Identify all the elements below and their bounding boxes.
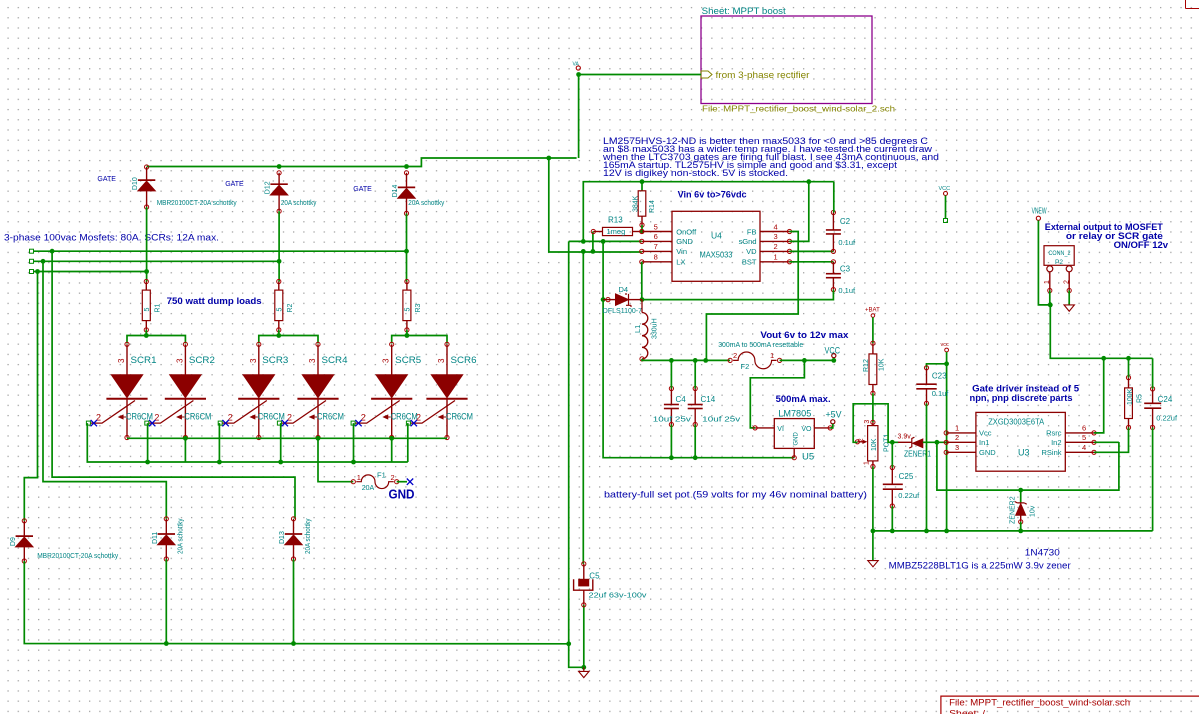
wire [1068,291,1070,305]
wire [872,393,874,422]
svg-text:3: 3 [955,443,959,452]
junction [890,440,895,445]
wire [891,506,893,531]
wire [670,360,672,388]
svg-text:SCR5: SCR5 [395,355,421,366]
svg-text:GND: GND [389,488,415,502]
svg-text:GND: GND [979,448,996,457]
svg-text:from 3-phase rectifier: from 3-phase rectifier [716,70,810,80]
power VCC stub [939,186,951,196]
label Vout note [760,330,849,341]
capacitor C4 [653,0,691,427]
wire [293,559,295,644]
wire F2 to VCC [780,359,834,361]
svg-text:LM7805: LM7805 [778,409,811,420]
wire end square [30,259,34,263]
IC U4 MAX5033 body [672,211,760,281]
global label VA [573,62,581,71]
junction [944,529,949,534]
diode D14 value [408,200,444,207]
junction [1018,529,1023,534]
svg-text:D13: D13 [279,531,286,544]
wire [583,605,585,668]
wire phase line 3 [34,271,147,273]
junction [50,249,55,254]
label F2 note [718,340,803,349]
junction [351,460,356,465]
junction [831,358,836,363]
capacitor C24 [1144,358,1178,429]
label 500mA max [776,394,831,405]
svg-text:5: 5 [277,308,284,312]
label 1N4730 [1025,548,1060,559]
wire [397,481,407,483]
svg-text:0.1uf: 0.1uf [932,389,950,398]
wire VCC to U5 [750,360,804,428]
diode D4 [603,285,642,315]
wire BST to C3 [790,261,834,263]
svg-text:ZXGD3003E6TA: ZXGD3003E6TA [988,418,1045,427]
capacitor C23 [916,366,949,406]
label GND [389,488,415,502]
label battery note [604,490,867,500]
svg-text:C3: C3 [840,265,851,274]
svg-text:4: 4 [1082,443,1086,452]
trimpot POT1 [855,420,890,469]
svg-text:10uf 25v: 10uf 25v [702,415,740,424]
IC U3 ZXGD3003E6TA body [976,412,1065,471]
svg-text:F2: F2 [741,362,750,371]
fuse F1 [351,471,399,493]
junction [404,249,409,254]
thyristor SCR4 [277,342,347,439]
svg-text:SCR2: SCR2 [189,355,215,366]
wire C24 down [1152,428,1154,531]
svg-text:SCR3: SCR3 [262,355,288,366]
svg-text:VD: VD [746,247,757,256]
svg-text:Sheet: /: Sheet: / [949,709,986,714]
junction [277,164,282,169]
label GATE 1 [97,176,116,183]
wire [926,403,928,531]
svg-text:vcc: vcc [941,342,950,348]
junction [591,249,596,254]
junction [581,665,586,670]
svg-text:SCR4: SCR4 [322,355,348,366]
wire top GND rail [583,182,834,242]
svg-text:3: 3 [175,358,184,363]
svg-text:C25: C25 [899,472,914,481]
svg-text:F1: F1 [377,471,386,480]
svg-text:CR6CM: CR6CM [317,412,344,422]
svg-text:In1: In1 [979,438,989,447]
svg-text:10v: 10v [1030,505,1037,517]
svg-text:C24: C24 [1158,395,1173,404]
svg-text:CR6CM: CR6CM [184,412,211,422]
svg-text:100K: 100K [1127,388,1134,405]
svg-text:2: 2 [391,473,395,482]
svg-text:2: 2 [955,433,959,442]
junction [802,358,807,363]
svg-text:+BAT: +BAT [865,308,880,314]
svg-text:Vin: Vin [676,247,687,256]
capacitor C25 [883,442,920,508]
label 750 watt dump loads [167,296,262,306]
svg-text:7: 7 [654,242,658,251]
wire FB net [706,232,798,361]
svg-text:2: 2 [1064,280,1071,284]
svg-text:3.9v: 3.9v [898,434,912,441]
svg-text:1: 1 [770,351,774,360]
wire gate stub [353,423,355,462]
wire [278,330,280,336]
wire phase1 drop to D13 [52,251,295,519]
svg-text:OnOff: OnOff [676,227,697,236]
svg-text:20A schottky: 20A schottky [408,200,444,207]
junction [924,529,929,534]
svg-text:D14: D14 [392,184,399,197]
svg-text:GND: GND [794,432,800,446]
wire [391,438,393,462]
svg-text:300mA to 500mA resettable: 300mA to 500mA resettable [718,340,803,349]
svg-text:1: 1 [864,461,871,465]
svg-text:C4: C4 [676,395,687,404]
wire gate bus [87,423,408,462]
sheet name [702,6,787,16]
svg-text:C4: C4 [678,0,689,2]
svg-text:0.22uf: 0.22uf [898,491,920,500]
svg-text:1: 1 [357,473,361,482]
wire top bus upper [147,158,577,167]
wire [259,336,318,344]
diode D11 value [178,518,185,554]
svg-text:VO: VO [801,426,812,433]
thyristor SCR2 [145,342,215,439]
wire C3 to LX node [642,290,833,300]
svg-text:R5: R5 [1137,394,1144,403]
power VCC [825,345,841,357]
junction [935,440,940,445]
sheet filename [702,104,895,114]
svg-text:5: 5 [1082,433,1086,442]
svg-text:20A: 20A [362,485,375,492]
wire R13 stub [592,232,594,252]
svg-text:1: 1 [774,253,778,262]
svg-text:R12: R12 [863,359,870,372]
svg-text:VNEW: VNEW [1032,207,1047,216]
svg-text:CONN_2: CONN_2 [1049,250,1071,257]
wire gate stub [147,423,149,462]
junction [183,436,188,441]
svg-text:2: 2 [774,242,778,251]
junction [1126,356,1131,361]
capacitor C3 [826,260,856,295]
thyristor SCR1 [86,342,156,439]
svg-text:6: 6 [654,232,658,241]
wire feed vertical [578,75,580,159]
wire sheet pin to junction [579,74,701,76]
svg-text:3: 3 [308,358,317,363]
svg-text:8: 8 [654,253,658,262]
svg-text:20A schottky: 20A schottky [178,518,185,554]
wire R5 to RSink [1094,428,1129,453]
svg-text:5: 5 [405,308,412,312]
svg-text:5: 5 [654,222,658,231]
svg-text:20A schottky: 20A schottky [305,518,312,554]
svg-text:3: 3 [382,358,391,363]
label MMBZ note [889,561,1071,571]
svg-text:Gate driver instead of 5: Gate driver instead of 5 [972,384,1079,394]
junction [669,358,674,363]
wire Rsrc up [1094,358,1104,433]
svg-text:1meg: 1meg [607,227,626,236]
junction [640,229,645,234]
wire phase line 1 [34,250,407,252]
svg-text:In2: In2 [1051,438,1061,447]
wire [923,441,946,443]
wire [694,360,696,388]
wire pot wiper loop [853,404,898,443]
svg-text:22uf 63v-100v: 22uf 63v-100v [589,591,647,600]
U3 left pins [944,424,996,457]
wire gate stub [218,423,220,462]
svg-text:R13: R13 [608,216,623,225]
wire C4/C14 gnd bus [603,300,794,458]
wire [24,561,568,644]
svg-text:npn, pnp discrete parts: npn, pnp discrete parts [970,393,1073,403]
wire bus drop to Vin net [549,158,642,252]
svg-text:10K: 10K [871,438,878,451]
diode D13 value [305,518,312,554]
svg-text:CR6CM: CR6CM [391,412,418,422]
svg-text:VCC: VCC [939,186,951,192]
wire end square [944,219,948,223]
wire [872,317,874,343]
junction [405,333,410,338]
wire rail to C2 [833,182,835,213]
svg-text:File: MPPT_rectifier_boost_win: File: MPPT_rectifier_boost_wind-solar_2.… [702,104,895,114]
svg-text:0.1uf: 0.1uf [838,286,856,295]
svg-text:D9: D9 [10,537,17,546]
wire VNEW down [1038,220,1050,305]
svg-text:0.1uf: 0.1uf [838,238,856,247]
thyristor SCR6 [406,342,476,439]
wire LX down [641,262,643,300]
no-connect X [407,479,413,485]
svg-text:R1: R1 [154,303,161,312]
power VCC small [941,342,950,352]
junction [581,249,586,254]
svg-text:GATE: GATE [97,176,116,183]
svg-text:5: 5 [144,308,151,312]
svg-text:GND: GND [676,237,693,246]
junction [806,179,811,184]
svg-text:SCR6: SCR6 [451,355,477,366]
svg-text:MAX5033: MAX5033 [700,250,733,260]
fuse F2 [728,351,782,371]
capacitor C2 [826,210,856,253]
junction [291,641,296,646]
junction [669,455,674,460]
svg-text:U4: U4 [711,231,722,241]
wire D4 anode drop [602,241,604,299]
svg-text:GATE: GATE [225,181,244,188]
svg-text:U3: U3 [1018,448,1030,458]
svg-text:1N4730: 1N4730 [1025,548,1060,559]
svg-text:2: 2 [733,351,737,360]
svg-text:3: 3 [249,358,258,363]
svg-text:MBR20100CT-20A schottky: MBR20100CT-20A schottky [157,200,237,207]
connector P2 CONN_2 [1044,246,1074,293]
junction [601,239,606,244]
svg-text:SCR1: SCR1 [131,355,157,366]
svg-text:L1: L1 [633,325,642,333]
svg-text:1: 1 [1044,280,1051,284]
svg-text:VA: VA [573,62,580,68]
wire [406,330,408,336]
wire bottom bus [873,530,1153,532]
svg-text:ZENER2: ZENER2 [1010,496,1017,524]
junction [890,529,895,534]
svg-text:MBR20100CT-20A schottky: MBR20100CT-20A schottky [37,553,118,560]
svg-text:3: 3 [437,358,446,363]
junction [576,72,581,77]
inductor L1 [633,300,658,361]
svg-text:3: 3 [864,420,871,424]
junction [871,529,876,534]
svg-text:battery-full set pot (59 volts: battery-full set pot (59 volts for my 46… [604,490,867,500]
wire C23 link [927,364,947,368]
wire sGnd to rail [790,182,809,242]
note paragraph LM2575 [602,136,939,178]
label external output note [1045,222,1168,250]
U4 left pins [640,222,697,266]
svg-text:C2: C2 [840,217,851,226]
junction [35,269,40,274]
title block [941,696,1199,714]
junction [640,179,645,184]
svg-text:sGnd: sGnd [739,237,757,246]
svg-text:12V is digikey non-stock. 5V i: 12V is digikey non-stock. 5V is stocked. [603,168,788,178]
wire [830,424,833,428]
svg-text:Vin 6v to>76vdc: Vin 6v to>76vdc [678,190,747,200]
wire SCR cathode bus [127,437,447,439]
svg-text:CR6CM: CR6CM [258,412,285,422]
resistor R12 [863,341,886,395]
junction [389,436,394,441]
svg-text:10K: 10K [879,358,886,371]
junction [703,358,708,363]
junction [316,436,321,441]
power +5V [826,410,843,424]
wire VNEW rail down [1050,305,1152,358]
diode D11 [152,517,175,561]
svg-text:RSink: RSink [1041,448,1061,457]
wire gate stub [280,423,282,462]
svg-text:D11: D11 [152,532,159,544]
wire [694,425,696,458]
junction [144,333,149,338]
label 3-phase note [4,233,219,243]
wire [184,438,186,462]
junction [1018,488,1023,493]
svg-text:2: 2 [858,438,865,442]
wire leg 1 [146,207,148,282]
wire end square [30,270,34,274]
svg-text:0.22uf: 0.22uf [1156,414,1178,423]
wire [946,352,948,531]
diode D10 value [157,200,237,207]
power GND symbol [1064,305,1074,311]
junction [217,460,222,465]
wire leg 3 [406,213,408,281]
diode D9 value [37,553,118,560]
power +BAT [865,308,880,318]
resistor R1 [142,279,161,332]
svg-text:FB: FB [747,227,757,236]
wire [127,336,185,344]
wire phase3 drop to D9 [24,272,37,521]
resistor R5 [1125,358,1144,429]
wire In1 drop [937,442,1119,490]
wire leg 2 [278,211,280,281]
resistor R3 [403,279,422,332]
svg-text:U5: U5 [802,452,814,463]
svg-text:500mA max.: 500mA max. [776,394,831,405]
svg-text:Vout 6v to 12v max: Vout 6v to 12v max [760,330,849,341]
svg-text:GATE: GATE [353,186,372,193]
wire [1020,522,1022,531]
wire L1 out [642,359,730,361]
label GATE 2 [225,181,244,188]
page border corner mark [1186,0,1199,9]
wire GND rail [569,241,584,667]
svg-text:VI: VI [777,426,784,433]
svg-text:File: MPPT_rectifier_boost_win: File: MPPT_rectifier_boost_wind-solar.sc… [949,698,1130,708]
thyristor SCR5 [351,342,421,439]
zener ZENER2 [1010,490,1037,524]
junction [144,269,149,274]
capacitor C14 [688,0,741,427]
U4 right pins [739,222,792,266]
junction [164,641,169,646]
power GND symbol [579,667,589,677]
svg-text:P2: P2 [1055,259,1063,266]
svg-text:ON/OFF 12v: ON/OFF 12v [1114,240,1169,250]
svg-text:DFLS1100-7: DFLS1100-7 [603,308,642,315]
svg-text:330uH: 330uH [652,318,659,339]
wire [1049,291,1052,305]
svg-text:3: 3 [117,358,126,363]
diode D12 value [281,200,317,207]
resistor R2 [275,279,294,332]
svg-text:VCC: VCC [825,345,841,356]
junction [145,460,150,465]
diode D14 [392,171,415,216]
svg-text:10uf 25v: 10uf 25v [653,415,691,424]
wire VD to C2 [790,250,834,252]
junction [640,297,645,302]
svg-text:D12: D12 [265,181,272,194]
resistor R14 [632,182,656,232]
junction [546,156,551,161]
regulator U5 LM7805 [753,409,832,463]
svg-text:Rsrc: Rsrc [1046,429,1062,438]
junction [1101,356,1106,361]
svg-text:LX: LX [676,258,685,267]
diode D12 [265,171,288,214]
wire VCC stub [945,196,947,220]
